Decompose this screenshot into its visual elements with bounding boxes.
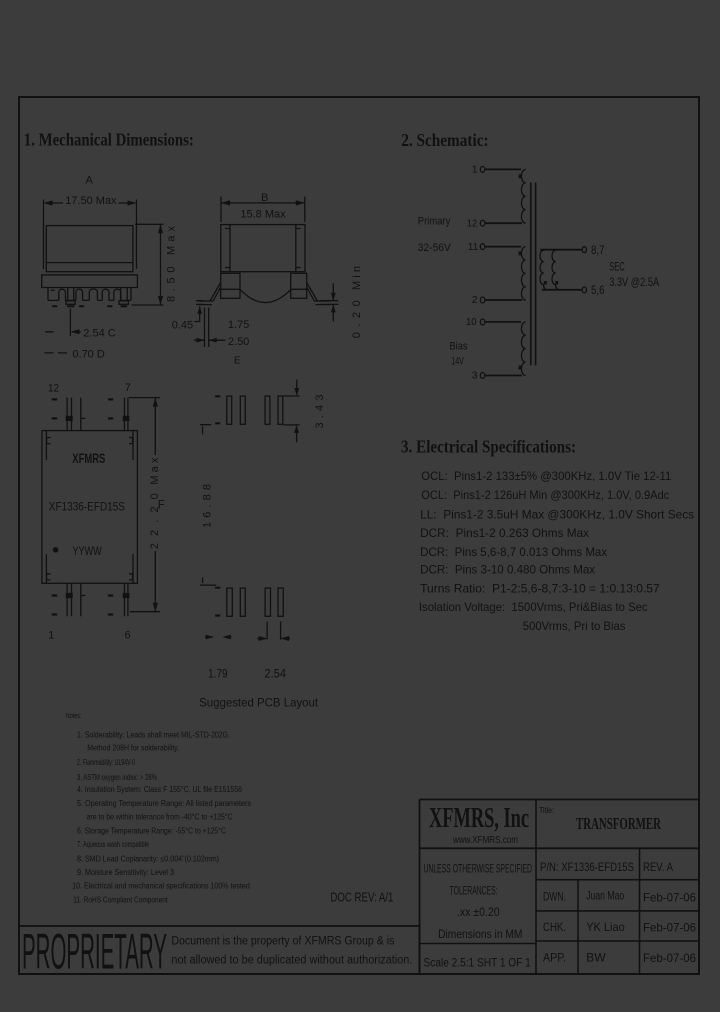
row line under tolerances <box>420 943 537 945</box>
dim 1.75 / 2.50 extension lines <box>205 308 209 348</box>
front pin 2 <box>121 288 127 301</box>
bottom pin C <box>124 583 128 616</box>
wire pin10 to winding <box>485 321 521 323</box>
left pad block <box>221 273 240 298</box>
wire pin12 to winding <box>485 222 522 224</box>
svg-text:XFMRS, Inc: XFMRS, Inc <box>429 803 529 834</box>
svg-text:1: 1 <box>48 629 54 641</box>
svg-text:Notes:: Notes: <box>66 711 82 720</box>
svg-text:2.54: 2.54 <box>265 667 287 681</box>
dim A line 17.50 Max <box>45 202 135 204</box>
svg-text:Feb-07-06: Feb-07-06 <box>643 891 696 905</box>
title block divider column <box>535 800 537 975</box>
svg-text:8,7: 8,7 <box>591 243 605 257</box>
svg-text:Max: Max <box>166 226 178 256</box>
svg-text:PROPRIETARY: PROPRIETARY <box>22 924 167 980</box>
bottom pin dashes position b <box>108 596 113 615</box>
svg-text:3: 3 <box>472 370 478 382</box>
wire pin1 to winding <box>485 168 521 170</box>
wire pin11 to winding <box>485 246 521 248</box>
svg-text:P/N: XF1336-EFD15S: P/N: XF1336-EFD15S <box>540 860 634 874</box>
dim 3.43 bottom <box>284 425 300 443</box>
pin tip dashes <box>52 305 127 307</box>
dim 1.79 arrows <box>205 636 232 638</box>
svg-text:500Vrms, Pri to Bias: 500Vrms, Pri to Bias <box>523 619 626 633</box>
dim 8.50 Max ticks <box>132 224 164 305</box>
svg-text:F: F <box>158 500 165 512</box>
svg-text:1.79: 1.79 <box>208 667 228 681</box>
polarity dot bias <box>519 366 522 370</box>
svg-text:1: 1 <box>472 163 478 175</box>
svg-text:3.3V @2.5A: 3.3V @2.5A <box>609 275 659 289</box>
proprietary box <box>19 926 420 974</box>
svg-text:YK Liao: YK Liao <box>586 920 625 934</box>
side body end caps <box>230 225 296 272</box>
svg-text:11: 11 <box>468 241 479 253</box>
dim 0.70 D <box>44 352 67 354</box>
svg-text:DCR: Pins 3-10 0.480 Ohms Max: DCR: Pins 3-10 0.480 Ohms Max <box>420 563 595 577</box>
svg-text:are to be within tolerance fro: are to be within tolerance from -40°C to… <box>87 813 233 822</box>
svg-text:17.50 Max: 17.50 Max <box>65 195 117 207</box>
svg-text:www.XFMRS.com: www.XFMRS.com <box>452 835 518 846</box>
dim A extension lines <box>44 200 137 270</box>
pin 10 terminal <box>480 319 485 325</box>
svg-text:APP.: APP. <box>543 951 566 965</box>
svg-text:.xx ±0.20: .xx ±0.20 <box>457 905 500 919</box>
svg-text:OCL: Pins1-2 126uH Min @300KH: OCL: Pins1-2 126uH Min @300KHz, 1.0V, 0.… <box>421 488 669 502</box>
svg-text:0.20: 0.20 <box>351 300 363 338</box>
secondary terminal 8,7 <box>582 247 586 253</box>
dim 0.20 Min <box>320 301 338 305</box>
corner strips <box>46 431 133 584</box>
front body <box>46 226 133 272</box>
dim 22.20 line <box>154 398 156 612</box>
core line 2 <box>535 183 537 366</box>
svg-text:Turns Ratio: P1-2:5,6-8,7:3-1: Turns Ratio: P1-2:5,6-8,7:3-10 = 1:0.13:… <box>420 582 660 596</box>
secondary top wire <box>540 249 582 251</box>
svg-text:7. Aqueous wash compatible: 7. Aqueous wash compatible <box>77 840 149 849</box>
svg-text:10. Electrical and mechanical: 10. Electrical and mechanical specificat… <box>72 882 250 891</box>
svg-text:11. RoHS Compliant Component: 11. RoHS Compliant Component <box>73 895 168 904</box>
polarity dot winding2 <box>519 251 522 255</box>
svg-text:XF1336-EFD15S: XF1336-EFD15S <box>49 499 125 513</box>
svg-text:BW: BW <box>586 951 606 965</box>
svg-text:B: B <box>261 192 268 204</box>
svg-text:10: 10 <box>466 316 477 328</box>
wire pin3 to winding <box>485 375 522 377</box>
svg-text:E: E <box>234 356 241 367</box>
svg-text:Bias: Bias <box>450 341 468 353</box>
top pin A <box>67 398 71 431</box>
date dot <box>53 547 59 553</box>
svg-text:Feb-07-06: Feb-07-06 <box>643 921 696 935</box>
svg-text:DCR: Pins 5,6-8,7 0.013 Ohms: DCR: Pins 5,6-8,7 0.013 Ohms Max <box>420 545 607 559</box>
svg-text:2.54 C: 2.54 C <box>83 327 115 339</box>
bottom pin dashes position a <box>52 596 58 615</box>
svg-text:32-56V: 32-56V <box>418 242 452 254</box>
pin 1 terminal <box>480 167 485 173</box>
svg-text:8. SMD Lead Coplanarity: ≤0.00: 8. SMD Lead Coplanarity: ≤0.004"(0.102mm… <box>77 854 219 863</box>
package body <box>42 431 137 584</box>
svg-text:CHK.: CHK. <box>543 920 566 934</box>
bottom pin B partial <box>81 583 86 616</box>
bottom row pad dashes <box>215 588 220 616</box>
svg-text:UNLESS OTHERWISE SPECIFIED: UNLESS OTHERWISE SPECIFIED <box>424 861 533 875</box>
top row pads <box>227 396 232 424</box>
pin comb <box>48 288 131 301</box>
pin 11 terminal <box>480 244 485 250</box>
divider label | name <box>577 880 579 974</box>
row line under DWN <box>536 910 699 912</box>
svg-text:Max: Max <box>149 457 161 485</box>
top pin B partial <box>81 398 86 431</box>
svg-text:YYWW: YYWW <box>73 544 103 558</box>
svg-text:Suggested PCB Layout: Suggested PCB Layout <box>199 696 319 710</box>
svg-text:0.45: 0.45 <box>172 319 193 331</box>
dim 2.54 C <box>69 309 71 337</box>
svg-text:1.75: 1.75 <box>228 319 249 331</box>
dim 2.54 arrows <box>257 638 290 640</box>
secondary winding B <box>552 250 560 290</box>
svg-text:Juan Mao: Juan Mao <box>586 889 624 903</box>
polarity dot secondary A <box>544 281 547 285</box>
dim 22.20 ticks <box>129 398 160 612</box>
dim 0.45 <box>196 301 204 305</box>
wire pin2 to winding <box>485 299 522 301</box>
svg-text:12: 12 <box>48 382 59 394</box>
svg-text:6. Storage Temperature Range:: 6. Storage Temperature Range: -55°C to +… <box>77 826 226 835</box>
bottom pin A <box>67 583 71 616</box>
svg-text:16.88: 16.88 <box>202 484 214 528</box>
dim 2.54 extension lines <box>267 621 281 639</box>
svg-text:Dimensions in MM: Dimensions in MM <box>438 927 522 941</box>
primary winding 1 <box>521 169 525 223</box>
divider name | date <box>639 880 641 974</box>
svg-text:DWN.: DWN. <box>543 890 566 904</box>
svg-text:Scale 2.5:1 SHT 1 OF 1: Scale 2.5:1 SHT 1 OF 1 <box>424 956 532 970</box>
svg-text:3.43: 3.43 <box>314 395 326 429</box>
svg-text:OCL: Pins1-2 133±5% @300KHz,: OCL: Pins1-2 133±5% @300KHz, 1.0V Tie 12… <box>421 469 671 483</box>
right gull-wing lead <box>307 283 318 302</box>
svg-text:XFMRS: XFMRS <box>72 451 105 466</box>
primary winding 2 <box>521 247 525 301</box>
svg-text:Method 208H for solderability.: Method 208H for solderability. <box>87 743 179 752</box>
dim 3.43 top <box>284 380 300 397</box>
svg-text:12: 12 <box>467 218 478 230</box>
dim 2.50 arrows <box>194 339 226 341</box>
divider P/N | REV <box>639 848 641 879</box>
bottom row top-left elbow <box>200 578 216 586</box>
front flange <box>42 275 138 288</box>
bottom row pads <box>227 588 233 616</box>
svg-text:6: 6 <box>125 629 131 641</box>
svg-text:Title:: Title: <box>539 805 554 815</box>
svg-text:TRANSFORMER: TRANSFORMER <box>576 814 661 833</box>
svg-text:SEC: SEC <box>609 259 625 273</box>
top row pad dashes <box>215 396 220 423</box>
svg-text:7: 7 <box>125 382 131 394</box>
row line under CHK <box>536 940 699 942</box>
svg-text:1. Mechanical Dimensions:: 1. Mechanical Dimensions: <box>24 130 194 150</box>
svg-text:3. ASTM oxygen index: > 28%: 3. ASTM oxygen index: > 28% <box>77 773 157 782</box>
left gull-wing lead <box>210 283 221 302</box>
svg-text:5,6: 5,6 <box>591 283 605 297</box>
svg-text:A: A <box>86 175 94 187</box>
svg-text:0.70 D: 0.70 D <box>72 349 104 361</box>
svg-text:DCR: Pins1-2 0.263 Ohms Max: DCR: Pins1-2 0.263 Ohms Max <box>420 526 589 540</box>
svg-text:9. Moisture Sensitivity: Level: 9. Moisture Sensitivity: Level 3 <box>77 868 174 877</box>
title block outline <box>420 800 700 975</box>
svg-text:Isolation Voltage: 1500Vrms,: Isolation Voltage: 1500Vrms, Pri&Bias to… <box>419 600 648 614</box>
svg-text:Min: Min <box>351 266 363 290</box>
svg-text:1. Solderability: Leads shall: 1. Solderability: Leads shall meet MIL-S… <box>77 730 230 739</box>
svg-text:2. Schematic:: 2. Schematic: <box>401 130 488 150</box>
svg-text:4. Insulation System: Class F: 4. Insulation System: Class F 155°C, UL … <box>77 785 242 794</box>
core line 1 <box>530 183 532 366</box>
svg-text:LL: Pins1-2 3.5uH Max @300KHz: LL: Pins1-2 3.5uH Max @300KHz, 1.0V Shor… <box>420 508 694 522</box>
svg-text:Feb-07-06: Feb-07-06 <box>643 951 696 965</box>
right pad block <box>291 273 307 298</box>
secondary bottom wire <box>542 289 582 291</box>
front pin 1 <box>68 288 74 301</box>
row line under XFMRS/Title <box>420 847 700 849</box>
bobbin arc <box>240 290 291 303</box>
polarity dot winding1 <box>519 174 522 178</box>
top pin dashes position b <box>108 399 113 418</box>
side body <box>221 225 305 272</box>
dim 8.50 Max line <box>160 224 162 305</box>
top pin C <box>124 398 128 431</box>
corner clips <box>47 438 133 580</box>
svg-text:Primary: Primary <box>418 215 451 227</box>
pin 12 terminal <box>480 220 485 226</box>
svg-text:2: 2 <box>472 294 478 306</box>
polarity dot secondary B <box>555 281 558 285</box>
top pin dashes position a <box>52 399 58 418</box>
svg-text:5. Operating Temperature Range: 5. Operating Temperature Range: All list… <box>77 799 251 808</box>
svg-text:15.8 Max: 15.8 Max <box>240 209 286 221</box>
pin 2 terminal <box>480 297 485 303</box>
svg-text:not allowed to be duplicated w: not allowed to be duplicated without aut… <box>171 955 412 967</box>
secondary terminal 5,6 <box>582 287 586 293</box>
dim B line 15.8 Max <box>221 202 305 204</box>
svg-text:3. Electrical Specifications:: 3. Electrical Specifications: <box>401 437 576 457</box>
pin 3 terminal <box>480 373 485 379</box>
svg-text:TOLERANCES:: TOLERANCES: <box>450 883 498 897</box>
top row left bottom elbow <box>200 425 211 435</box>
svg-text:2.50: 2.50 <box>228 336 249 348</box>
svg-text:2. Flammability: UL94V-0: 2. Flammability: UL94V-0 <box>77 758 135 767</box>
svg-text:14V: 14V <box>451 356 464 368</box>
svg-text:REV. A: REV. A <box>643 860 673 874</box>
row line under P/N <box>536 879 699 881</box>
svg-text:DOC REV: A/1: DOC REV: A/1 <box>330 891 393 905</box>
bias winding <box>521 322 525 376</box>
secondary winding A <box>540 250 548 290</box>
svg-text:8.50: 8.50 <box>166 267 178 303</box>
svg-text:Document is the property of XF: Document is the property of XFMRS Group … <box>171 936 394 948</box>
dim B extension lines <box>221 197 305 223</box>
